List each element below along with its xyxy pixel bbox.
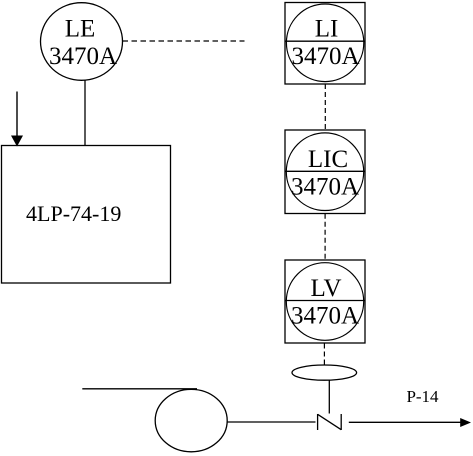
svg-text:3470A: 3470A — [291, 303, 359, 330]
dashed signal line LV to actuator — [323, 344, 325, 365]
line label P-14 — [406, 387, 439, 406]
svg-text:4LP-74-19: 4LP-74-19 — [26, 201, 121, 226]
wire LE to vessel — [84, 81, 86, 146]
control valve body — [318, 414, 342, 430]
svg-text:LE: LE — [65, 16, 96, 43]
instrument box LV — [285, 260, 365, 343]
feed arrow into vessel — [11, 92, 23, 147]
instrument bubble LE — [41, 3, 123, 81]
svg-text:3470A: 3470A — [49, 43, 117, 70]
svg-text:LI: LI — [315, 16, 339, 43]
pump — [82, 389, 227, 452]
svg-text:P-14: P-14 — [406, 387, 439, 406]
vessel 4LP-74-19 — [2, 146, 171, 284]
svg-text:LV: LV — [310, 275, 341, 302]
dashed signal line LE to LI — [123, 40, 245, 42]
dashed signal line LI to LIC — [324, 84, 326, 129]
dashed signal line LIC to LV — [324, 214, 326, 259]
svg-text:3470A: 3470A — [291, 173, 359, 200]
valve stem — [328, 381, 330, 414]
instrument box LIC — [285, 130, 365, 214]
pipe valve to arrow P-14 — [349, 418, 471, 427]
valve actuator diaphragm — [292, 365, 357, 380]
svg-text:3470A: 3470A — [291, 43, 359, 70]
instrument box LI — [285, 3, 365, 85]
pipe pump to valve — [227, 421, 315, 423]
svg-text:LIC: LIC — [308, 146, 348, 173]
